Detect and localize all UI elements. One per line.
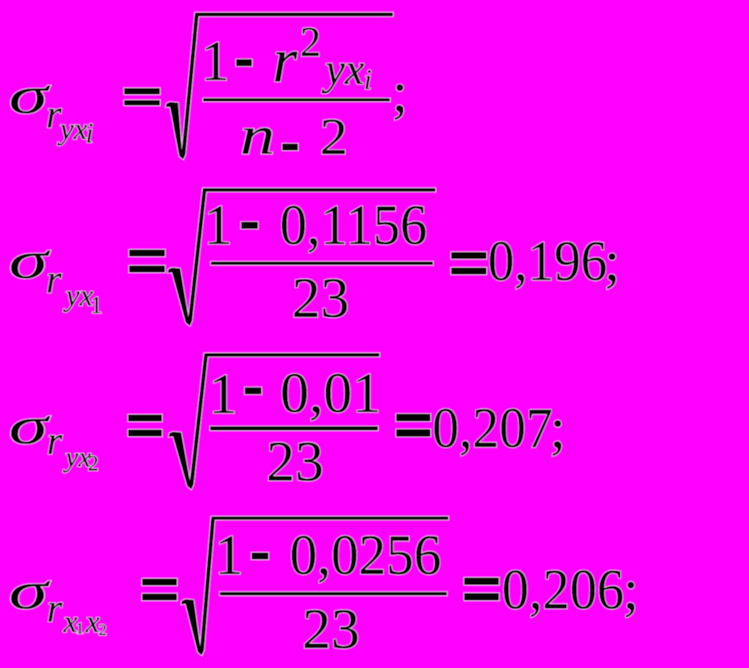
svg-text:σ: σ <box>9 561 51 620</box>
F2 radical <box>168 190 207 326</box>
svg-text:23: 23 <box>266 431 324 494</box>
svg-text:1: 1 <box>90 293 102 319</box>
svg-text:;: ; <box>550 397 566 460</box>
svg-text:2: 2 <box>99 622 107 639</box>
F1 equals bottom <box>124 100 160 106</box>
svg-text:0,01: 0,01 <box>280 362 381 425</box>
svg-text:r: r <box>272 25 298 96</box>
svg-text:0,207: 0,207 <box>432 397 553 460</box>
F2 equals2 top <box>451 252 487 259</box>
svg-text:1: 1 <box>204 194 233 257</box>
F1 fraction bar <box>203 98 390 101</box>
svg-text:;: ; <box>392 61 408 124</box>
F3 fraction bar <box>210 426 378 430</box>
svg-text:;: ; <box>604 230 620 293</box>
F3 equals bottom <box>128 430 162 437</box>
svg-text:i: i <box>364 64 372 96</box>
svg-text:yx: yx <box>63 278 94 313</box>
F1 radical <box>166 14 199 159</box>
svg-text:n: n <box>240 105 275 166</box>
svg-text:2: 2 <box>300 20 321 66</box>
svg-text:0,196: 0,196 <box>488 230 608 293</box>
F1 num minus <box>236 59 252 66</box>
F3 radical <box>169 355 208 490</box>
F2 num minus <box>241 222 258 229</box>
svg-text:σ: σ <box>9 231 51 290</box>
F2 equals bottom <box>129 266 165 273</box>
F4 equals top <box>142 579 177 586</box>
svg-text:yx: yx <box>57 111 88 146</box>
svg-text:1: 1 <box>201 30 230 93</box>
F1 equals top <box>124 88 160 95</box>
F4 num minus <box>252 553 269 560</box>
F2 equals top <box>129 250 165 257</box>
svg-text:σ: σ <box>9 396 51 455</box>
svg-text:1: 1 <box>209 363 238 426</box>
F2 fraction bar <box>211 262 433 265</box>
F3 equals top <box>128 415 162 422</box>
svg-text:r: r <box>47 586 63 631</box>
svg-text:;: ; <box>623 559 639 622</box>
svg-text:23: 23 <box>292 267 350 330</box>
svg-text:x: x <box>85 603 100 639</box>
svg-text:yx: yx <box>321 45 365 94</box>
svg-text:0,206: 0,206 <box>502 559 624 622</box>
svg-text:r: r <box>47 418 63 463</box>
F4 radical <box>181 518 215 656</box>
F4 equals bottom <box>142 594 177 601</box>
svg-text:σ: σ <box>9 66 51 125</box>
F1 den minus <box>282 144 298 151</box>
svg-text:0,0256: 0,0256 <box>290 524 442 587</box>
svg-text:0,1156: 0,1156 <box>280 194 428 257</box>
F2 equals2 bottom <box>451 268 487 275</box>
svg-text:r: r <box>46 256 62 301</box>
svg-text:2: 2 <box>88 451 99 476</box>
F3 equals2 bottom <box>396 429 431 437</box>
svg-text:1: 1 <box>76 621 84 638</box>
F4 equals2 bottom <box>464 593 499 601</box>
F4 equals2 top <box>464 578 499 586</box>
svg-text:i: i <box>86 119 94 150</box>
svg-text:1: 1 <box>215 524 244 587</box>
F4 fraction bar <box>220 592 447 596</box>
F3 num minus <box>245 387 262 394</box>
F3 equals2 top <box>396 414 431 422</box>
svg-text:2: 2 <box>320 109 348 166</box>
svg-text:23: 23 <box>302 598 360 661</box>
